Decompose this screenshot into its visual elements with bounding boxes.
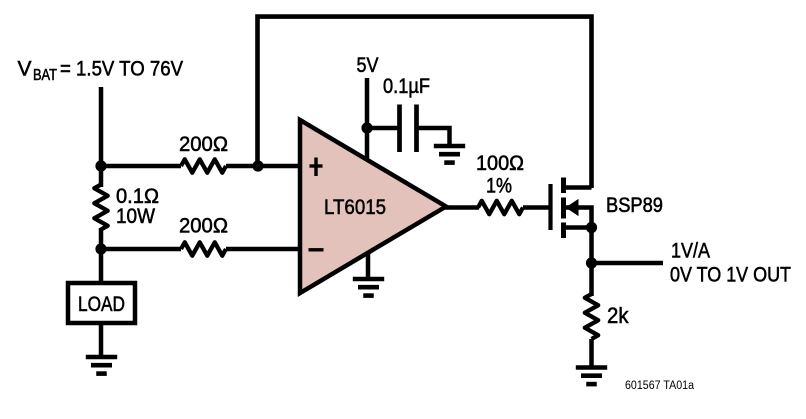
svg-text:100Ω: 100Ω xyxy=(476,152,524,175)
resistor R5 2k zigzag xyxy=(585,294,598,339)
node junction source body xyxy=(586,222,597,233)
node junction output xyxy=(586,257,597,268)
svg-text:BAT: BAT xyxy=(33,67,57,84)
resistor R3 200Ω bottom zigzag xyxy=(181,242,226,255)
op-amp minus input symbol xyxy=(309,248,324,251)
svg-text:601567 TA01a: 601567 TA01a xyxy=(625,380,695,392)
wire output xyxy=(592,261,664,266)
resistor R2 0.1Ω 10W zigzag xyxy=(94,185,107,230)
wire supply pin 5V xyxy=(365,78,370,163)
svg-text:= 1.5V TO 76V: = 1.5V TO 76V xyxy=(60,58,183,81)
svg-text:BSP89: BSP89 xyxy=(606,194,663,217)
capacitor C1 0.1µF plates xyxy=(400,105,417,153)
wire source to output node xyxy=(589,228,594,266)
transistor Q1 source wire xyxy=(564,225,592,230)
svg-text:0V TO 1V OUT: 0V TO 1V OUT xyxy=(670,264,791,287)
svg-text:V: V xyxy=(18,58,32,81)
transistor Q1 body arrow xyxy=(566,199,579,216)
svg-text:200Ω: 200Ω xyxy=(179,133,228,156)
svg-text:2k: 2k xyxy=(607,303,629,328)
svg-text:1%: 1% xyxy=(486,175,512,198)
ground capacitor xyxy=(434,146,465,163)
wire load to ground xyxy=(99,323,104,357)
transistor Q1 BSP89 gate bar xyxy=(548,184,552,230)
LOAD box xyxy=(68,283,135,323)
svg-text:0.1µF: 0.1µF xyxy=(383,75,430,98)
wire inverting input rail xyxy=(101,247,303,252)
wire op-amp ground stub xyxy=(366,250,371,279)
ground 2k xyxy=(576,368,607,385)
svg-text:1V/A: 1V/A xyxy=(671,240,710,263)
node junction supply capacitor xyxy=(361,122,372,133)
wire output node to 2k xyxy=(589,263,594,296)
node junction shunt load xyxy=(95,243,106,254)
svg-text:5V: 5V xyxy=(357,54,379,77)
node junction noninverting rail xyxy=(252,160,263,171)
transistor Q1 channel segments xyxy=(561,178,566,239)
op-amp U1 LT6015 triangle xyxy=(300,120,446,293)
wire VBAT vertical xyxy=(99,87,104,187)
svg-text:LT6015: LT6015 xyxy=(324,195,386,219)
resistor R4 100Ω 1% zigzag xyxy=(478,201,523,214)
transistor Q1 drain wire xyxy=(564,185,592,190)
svg-text:LOAD: LOAD xyxy=(78,293,125,316)
node junction VBAT shunt xyxy=(95,160,106,171)
wire top feedback rail xyxy=(258,17,592,188)
ground load xyxy=(86,357,117,374)
wire op-amp output xyxy=(444,205,479,210)
ground op-amp xyxy=(353,279,384,296)
op-amp plus input symbol xyxy=(310,158,323,177)
wire capacitor to ground xyxy=(418,128,450,146)
svg-text:200Ω: 200Ω xyxy=(179,215,228,238)
wire gate lead xyxy=(523,205,549,210)
wire shunt to load xyxy=(99,228,104,283)
wire 2k to ground xyxy=(589,339,594,368)
label VBAT = 1.5V TO 76V xyxy=(18,58,184,85)
resistor R1 200Ω top zigzag xyxy=(181,159,226,172)
wire node to capacitor xyxy=(365,126,398,131)
wire noninverting input rail xyxy=(101,164,303,169)
transistor Q1 body wire xyxy=(566,208,592,228)
svg-text:10W: 10W xyxy=(116,205,155,228)
